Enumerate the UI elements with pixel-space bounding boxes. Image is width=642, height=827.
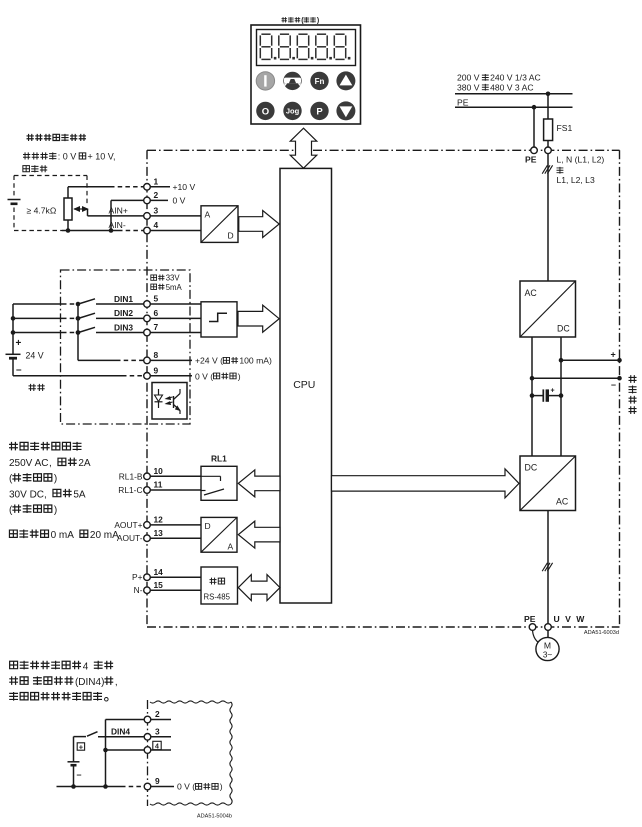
button Fn [310,72,328,90]
PE terminal (bottom) [529,624,536,631]
svg-text:7: 7 [154,322,159,332]
battery wire up [73,737,75,762]
rectifier AC/DC U6 [520,281,576,337]
wire DC+ to link [561,359,620,361]
junction common DIN2 [76,316,81,321]
svg-text:15: 15 [154,580,164,590]
svg-text:AIN-: AIN- [109,220,126,230]
wire terminal 2 stub [150,199,168,201]
D/A converter U5 [201,517,237,552]
svg-text:,: , [44,489,47,500]
enclosure border bottom [147,626,620,628]
wire DIN1 from bus [13,303,62,305]
terminal 6 [144,315,151,322]
wire DIN2 from bus [13,317,62,319]
wire row 3 right [151,736,171,738]
serial interface 串口 RS-485 [201,567,238,604]
A/D converter U2 [201,206,238,243]
battery B3 [68,761,80,763]
DC bus left [531,337,533,456]
wire terminal 2 drop to AIN- row [110,200,112,230]
label 最大 5mA [151,284,157,289]
svg-text:+: + [551,387,555,394]
button I (on) [256,72,274,90]
wire row 2 right [151,719,171,721]
wire DIN3 from bus [13,332,62,334]
svg-text:24 V: 24 V [26,351,44,361]
svg-text:4: 4 [154,220,159,230]
terminal 15 [144,587,151,594]
note 输出继电器触头 [9,442,18,451]
svg-text:PE: PE [524,614,536,624]
svg-text:ADA51-6003d: ADA51-6003d [584,630,619,636]
svg-text:+: + [611,350,616,360]
svg-text:200 V: 200 V [457,73,480,83]
mains terminal [545,147,552,154]
svg-text:: 0 V: : 0 V [58,152,77,162]
svg-text:+10 V: +10 V [173,182,196,192]
svg-text:DIN2: DIN2 [114,308,133,318]
svg-text:PE: PE [525,155,537,165]
svg-text:DIN4: DIN4 [111,726,130,736]
svg-text:RL1: RL1 [211,454,227,464]
svg-text:L, N (L1, L2): L, N (L1, L2) [557,155,605,165]
svg-text:D: D [228,231,234,241]
svg-text:5: 5 [154,294,159,304]
svg-text:N-: N- [134,585,143,595]
wire terminal 12 to D/A [150,524,201,526]
junction common DIN3 [76,330,81,335]
wire terminal 5 to trigger [150,303,201,305]
svg-text:A: A [228,542,234,552]
wire fuse to terminal [547,141,549,147]
svg-text:1: 1 [154,176,159,186]
wire DIN3 to terminal [96,332,144,334]
calibration dashed box [14,175,87,177]
digital input dash-dot box [61,270,191,424]
wire terminal 9 stub [150,375,192,377]
svg-text:11: 11 [154,480,163,490]
junction 0V/AIN- [109,228,114,233]
junction mains [546,92,551,97]
svg-text:480 V 3 AC: 480 V 3 AC [490,83,533,93]
multi-wire slashes (mains) [542,165,547,173]
terminal 14 [144,574,151,581]
switch DIN1 [76,302,81,307]
enclosure border left [146,150,148,627]
svg-text:30V DC: 30V DC [9,489,44,500]
svg-text:12: 12 [154,515,164,525]
wire row 9 right [151,786,174,788]
wire row 4 right [151,749,171,751]
svg-text:4: 4 [83,661,89,672]
label 最大 33V [151,275,157,280]
potentiometer R1 [64,198,72,220]
wire terminal 6 to trigger [150,317,201,319]
wire 0V to terminal 9 [13,375,122,377]
partial enclosure torn right edge [230,702,232,804]
wire mains line [455,93,573,95]
svg-text:P+: P+ [132,572,143,582]
svg-text:ADA51-5004b: ADA51-5004b [197,814,232,820]
operator panel box [251,25,361,124]
wire row 9 [57,786,122,788]
svg-text:RL1-C: RL1-C [118,485,142,495]
terminal 2 [144,197,151,204]
DC bus right [560,337,562,456]
svg-text:0 V (: 0 V ( [195,371,213,381]
svg-text:13: 13 [154,528,164,538]
24V supply bus [12,304,14,354]
enclosure border right [619,150,621,627]
label 直流回路 (vertical) [629,375,637,383]
svg-text:2: 2 [155,709,160,719]
svg-text:2: 2 [154,190,159,200]
motor M 3~ [536,637,559,660]
wire terminal 10 to RL1 [150,475,201,477]
svg-text:33V: 33V [166,274,181,283]
arrow A/D to CPU [239,211,279,238]
svg-text:DIN1: DIN1 [114,294,133,304]
junction row4 [103,748,108,753]
arrow CPU to inverter [332,469,520,498]
svg-text:100 mA): 100 mA) [239,356,272,366]
terminal 3 [144,213,151,220]
terminal 4 [144,227,151,234]
svg-text:3~: 3~ [543,651,553,660]
wire terminal 1 stub [150,186,170,188]
note 可标定 [23,166,30,172]
wire terminal 11 to RL1 [150,489,201,491]
battery B1 (external analog source) [8,199,21,201]
svg-text:Jog: Jog [286,107,300,116]
terminal 12 [144,522,151,529]
terminal 10 [144,473,151,480]
section label 电源和模拟输入 [27,134,34,141]
switch common bus [77,304,79,360]
svg-text:6: 6 [154,308,159,318]
svg-text:3: 3 [154,205,159,215]
wire switch to terminal 3 [98,736,144,738]
wire mains to fuse [547,94,549,119]
svg-text:10: 10 [154,466,164,476]
svg-text:250V AC: 250V AC [9,458,48,469]
wire row 2 drop [105,720,107,787]
svg-text:(DIN4): (DIN4) [75,677,104,688]
wire DIN2 to terminal [96,317,144,319]
svg-text:AIN+: AIN+ [109,205,128,215]
svg-text:AOUT-: AOUT- [117,533,143,543]
terminal 2 (DIN4 fig) [144,716,151,723]
wire terminal 13 to D/A [150,537,201,539]
CPU U1 [280,168,332,603]
wire mains to rectifier [547,154,549,281]
terminal 5 [144,301,151,308]
wire common to terminal 8 [78,359,116,361]
arrow CPU to RL1 [238,470,280,497]
junction bus DIN2 [11,316,16,321]
battery B2 24V [6,353,21,355]
wire terminal 8 stub [150,359,192,361]
wire PE drop [533,107,535,147]
svg-text:–: – [611,379,616,389]
svg-text:5A: 5A [73,489,86,500]
PE terminal [531,147,538,154]
svg-text:AC: AC [525,288,538,298]
svg-text:): ) [54,474,57,485]
svg-text:8: 8 [154,350,159,360]
wire wiper to AIN+ row [87,209,89,216]
note 输入电压: 0 V 到 + 10 V, [23,152,30,159]
svg-text:L1, L2, L3: L1, L2, L3 [557,175,595,185]
svg-text:FS1: FS1 [557,123,573,133]
wire terminal 3 to A/D [150,215,201,217]
wire motor drop [547,630,549,637]
svg-text:AC: AC [556,497,569,507]
note 模拟输入作为第 4 个附 [10,661,18,668]
wire row 2 left [106,719,145,721]
svg-text:9: 9 [155,776,160,786]
svg-text:PE: PE [457,97,469,107]
junction PE [532,105,537,110]
svg-text:RS-485: RS-485 [204,593,231,602]
operator panel title 操作板(选件) [282,17,288,22]
partial enclosure torn bottom edge [150,803,231,805]
svg-text:): ) [220,782,223,792]
arrow trigger to CPU [238,305,279,332]
svg-text:,: , [115,677,118,688]
inverter DC/AC U7 [520,456,576,511]
motor terminal UVW [545,624,552,631]
svg-text:14: 14 [154,567,164,577]
enclosure border top [147,149,620,151]
button Jog [283,102,301,120]
switch DIN2 [76,316,81,321]
button up [336,71,355,90]
multi-wire slashes (motor) [542,563,547,571]
boxed + label [77,743,84,750]
wire terminal 4 to A/D [150,230,201,232]
wire row 4 [106,749,145,751]
svg-text:9: 9 [154,365,159,375]
partial enclosure torn top edge [150,701,231,703]
svg-text:M: M [544,641,551,651]
svg-text:0 mA: 0 mA [51,530,75,541]
svg-text:0 V: 0 V [173,196,186,206]
svg-text:+24 V (: +24 V ( [195,356,223,366]
svg-text:): ) [54,505,57,516]
terminal 8 [144,357,151,364]
terminal 3 (DIN4 fig) [144,734,151,741]
pot wiper arrow [74,208,88,210]
wire terminal 15 to serial [150,589,201,591]
svg-text:+ 10 V,: + 10 V, [88,152,116,162]
partial enclosure left border [147,700,149,806]
svg-text:D: D [205,521,211,531]
wire DC- to link [532,377,620,379]
wire battery to switch [74,736,87,738]
note 模拟输出 0 mA 到 20 mA [9,530,17,537]
svg-text:DC: DC [557,324,570,334]
svg-text:O: O [262,106,269,117]
wire terminal 14 to serial [150,576,201,578]
wire PE to motor [533,630,539,642]
svg-text:DC: DC [525,463,538,473]
wire AIN+ row [88,215,144,217]
svg-text:≥ 4.7kΩ: ≥ 4.7kΩ [27,206,57,216]
svg-text:AOUT+: AOUT+ [114,520,142,530]
svg-text:240 V 1/3 AC: 240 V 1/3 AC [490,73,541,83]
svg-text:–: – [16,365,22,376]
button reverse [283,72,301,90]
terminal 1 [144,184,151,191]
svg-text:Fn: Fn [315,77,325,86]
terminal 11 [144,487,151,494]
junction bus DIN3 [11,330,16,335]
svg-text:P: P [316,106,323,117]
schmitt trigger U3 [201,302,237,337]
svg-text:DIN3: DIN3 [114,322,133,332]
wire inverter to motor terminal [547,511,549,624]
terminal 4 (DIN4 fig) [144,747,151,754]
svg-text:): ) [238,371,241,381]
terminal 9 [144,373,151,380]
arrow CPU to D/A [238,521,280,548]
terminal 9 (DIN4 fig) [144,783,151,790]
label 或 [557,167,564,174]
wire pot bottom to AIN- row [67,220,69,231]
wire PE line [455,106,573,108]
panel-CPU bus arrow [290,128,317,168]
svg-text:5mA: 5mA [166,283,183,292]
svg-text:2A: 2A [78,458,91,469]
svg-text:U V W: U V W [554,614,586,624]
button down [336,101,355,120]
svg-text:3: 3 [155,727,160,737]
note 加的 数字输入(DIN4)时， [9,676,18,684]
svg-text:0 V (: 0 V ( [177,782,195,792]
label 电源 [29,384,36,391]
arrow CPU-serial (bidirectional) [238,575,280,601]
wire DIN1 to terminal [96,303,144,305]
svg-text:+: + [79,742,84,751]
svg-text:,: , [49,458,52,469]
seven-segment display [257,30,356,66]
wire pot top to terminal 1 row [67,187,69,198]
svg-text:–: – [77,770,82,780]
terminal 7 [144,329,151,336]
DC link capacitor C1 [532,395,543,397]
terminal 13 [144,535,151,542]
wire 0V row [111,199,144,201]
fuse FS1 [544,119,553,141]
junction pot bottom [66,228,71,233]
button O (off) [256,102,274,120]
svg-text:CPU: CPU [293,379,315,391]
optocoupler U4 [152,383,187,420]
switch DIN3 [76,330,81,335]
switch DIN4 [87,732,98,737]
svg-text:A: A [205,210,211,220]
button P [310,102,328,120]
svg-text:): ) [317,18,319,25]
wire terminal 7 to trigger [150,332,201,334]
svg-text:+: + [16,338,22,349]
wire AIN- row [14,230,62,232]
svg-text:380 V: 380 V [457,83,480,93]
svg-text:RL1-B: RL1-B [119,471,143,481]
svg-text:20 mA: 20 mA [90,530,119,541]
note 外部的电路连接方法。 [9,692,18,701]
